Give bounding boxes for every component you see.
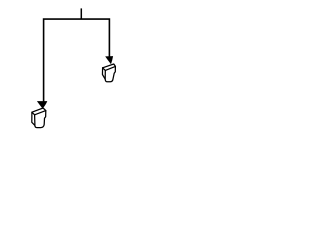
top face [32, 108, 46, 115]
front face [35, 111, 46, 128]
icon right (3D extruded part) [102, 64, 115, 82]
left side face [32, 112, 35, 125]
wire: top stub tick [80, 8, 82, 19]
top face [103, 64, 116, 70]
left side face [102, 68, 105, 79]
wire: horizontal bus with left and right drops [44, 19, 110, 102]
arrowhead right [105, 56, 113, 64]
front face [105, 66, 115, 81]
arrowhead left [37, 101, 47, 109]
icon left (3D extruded part) [32, 108, 46, 128]
